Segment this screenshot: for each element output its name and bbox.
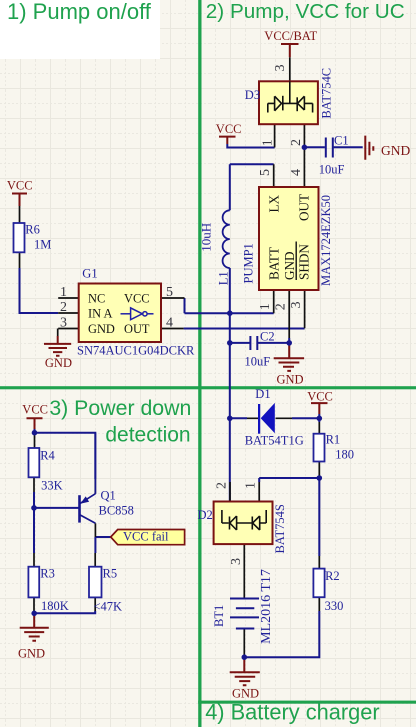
svg-text:VCC fail: VCC fail [123, 530, 169, 544]
svg-text:10uF: 10uF [245, 354, 271, 368]
svg-text:1: 1 [258, 303, 273, 310]
svg-text:IN A: IN A [88, 307, 112, 321]
svg-text:NC: NC [88, 292, 105, 306]
svg-text:BAT754S: BAT754S [273, 504, 287, 553]
svg-text:4: 4 [166, 315, 173, 330]
svg-text:D2: D2 [198, 508, 213, 522]
svg-text:GND: GND [18, 647, 45, 661]
svg-text:SHDN: SHDN [297, 244, 312, 280]
svg-text:R2: R2 [325, 569, 340, 583]
svg-text:3: 3 [273, 65, 288, 72]
svg-text:R6: R6 [25, 222, 40, 236]
svg-text:VCC: VCC [7, 179, 33, 193]
svg-text:VCC: VCC [124, 292, 149, 306]
svg-text:2: 2 [274, 303, 289, 310]
svg-text:BT1: BT1 [212, 605, 226, 627]
svg-text:GND: GND [277, 372, 304, 386]
svg-text:L1: L1 [216, 271, 230, 285]
svg-text:1: 1 [60, 285, 67, 300]
svg-text:SN74AUC1G04DCKR: SN74AUC1G04DCKR [77, 344, 195, 358]
svg-text:180K: 180K [41, 599, 69, 613]
svg-text:5: 5 [258, 169, 273, 176]
svg-text:VCC: VCC [216, 122, 242, 136]
svg-text:R5: R5 [103, 567, 118, 581]
svg-text:detection: detection [105, 424, 190, 447]
svg-text:D1: D1 [255, 387, 270, 401]
svg-text:5: 5 [166, 285, 173, 300]
svg-text:BC858: BC858 [99, 504, 134, 518]
svg-text:180: 180 [335, 447, 354, 461]
svg-text:ML2016 T17: ML2016 T17 [259, 569, 274, 644]
svg-text:MAX1724EZK50: MAX1724EZK50 [319, 195, 333, 286]
svg-text:Q1: Q1 [101, 489, 116, 503]
svg-text:4: 4 [289, 169, 304, 176]
svg-text:GND: GND [45, 356, 72, 370]
svg-text:2: 2 [215, 482, 230, 489]
svg-text:2) Pump, VCC for UC: 2) Pump, VCC for UC [206, 0, 405, 23]
svg-text:3) Power down: 3) Power down [49, 396, 191, 420]
svg-text:33K: 33K [41, 478, 63, 492]
svg-text:R1: R1 [326, 433, 341, 447]
svg-text:4) Battery charger: 4) Battery charger [205, 700, 379, 725]
svg-text:330: 330 [325, 599, 344, 613]
svg-text:1M: 1M [34, 237, 51, 251]
svg-text:1: 1 [244, 482, 259, 489]
svg-text:GND: GND [282, 251, 297, 280]
svg-text:LX: LX [267, 194, 282, 212]
svg-text:<47K: <47K [94, 600, 123, 614]
svg-text:OUT: OUT [297, 194, 312, 221]
svg-text:GND: GND [232, 686, 259, 700]
svg-text:VCC/BAT: VCC/BAT [264, 29, 317, 43]
svg-text:VCC: VCC [307, 390, 333, 404]
svg-text:D3: D3 [245, 88, 260, 102]
svg-text:3: 3 [60, 315, 67, 330]
svg-text:R4: R4 [40, 449, 55, 463]
svg-text:2: 2 [289, 139, 304, 146]
svg-text:R3: R3 [40, 567, 55, 581]
svg-text:C1: C1 [334, 133, 349, 147]
svg-text:1) Pump on/off: 1) Pump on/off [7, 0, 152, 24]
svg-text:VCC: VCC [22, 403, 48, 417]
svg-text:3: 3 [229, 558, 244, 565]
svg-text:10uF: 10uF [319, 162, 345, 176]
svg-text:OUT: OUT [124, 322, 150, 336]
svg-text:GND: GND [381, 143, 410, 158]
svg-text:2: 2 [60, 300, 67, 315]
svg-text:BATT: BATT [267, 247, 282, 280]
svg-text:1: 1 [261, 139, 276, 146]
svg-text:PUMP1: PUMP1 [242, 243, 256, 283]
svg-text:C2: C2 [260, 329, 275, 343]
svg-text:BAT754C: BAT754C [320, 68, 334, 119]
svg-text:BAT54T1G: BAT54T1G [245, 433, 304, 447]
svg-text:3: 3 [289, 302, 304, 309]
svg-text:10uH: 10uH [198, 223, 213, 252]
svg-text:G1: G1 [82, 266, 97, 280]
svg-text:GND: GND [88, 322, 115, 336]
